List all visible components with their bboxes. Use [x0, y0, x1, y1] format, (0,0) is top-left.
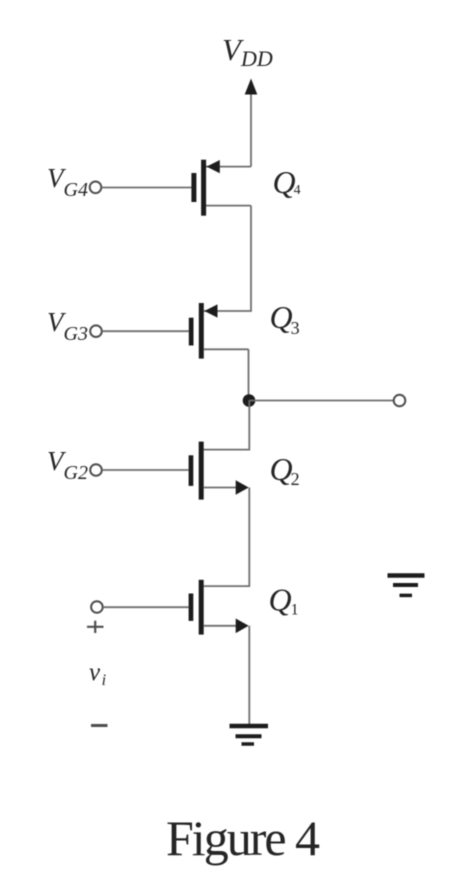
terminal VG3 — [90, 325, 102, 337]
label Q3 — [270, 299, 300, 338]
svg-text:vi: vi — [89, 659, 106, 689]
label plus — [87, 621, 104, 633]
terminal vi input — [91, 601, 103, 613]
ground (right, output reference) — [388, 576, 425, 596]
transistor Q2 (NMOS) — [189, 442, 249, 500]
transistor Q4 (PMOS) — [191, 160, 251, 216]
svg-text:Q2: Q2 — [270, 451, 300, 489]
transistor Q1 (NMOS) — [189, 580, 249, 635]
label VDD — [222, 32, 273, 71]
wire Q2 source to Q1 drain — [204, 488, 250, 587]
terminal VG2 — [90, 464, 102, 476]
svg-text:VG2: VG2 — [47, 446, 88, 484]
svg-text:Q3: Q3 — [270, 299, 300, 338]
wire Q3 drain to output node — [248, 349, 250, 400]
svg-text:VDD: VDD — [222, 32, 273, 71]
svg-text:VG4: VG4 — [47, 163, 88, 201]
label Q4 — [273, 164, 301, 200]
transistor Q3 (PMOS) — [189, 303, 249, 359]
label VG3 — [47, 307, 88, 345]
label minus — [91, 724, 108, 727]
caption Figure 4 — [166, 810, 320, 866]
ground (bottom) — [230, 726, 269, 744]
terminal output — [394, 395, 406, 407]
label Q2 — [270, 451, 300, 489]
label vi — [89, 659, 106, 689]
power VDD arrow — [245, 79, 258, 167]
wire vi to Q1 gate — [103, 606, 189, 608]
label VG2 — [47, 446, 88, 484]
node output junction — [243, 394, 256, 407]
terminal VG4 — [90, 182, 102, 194]
wire VG4 to Q4 gate — [102, 187, 192, 189]
svg-text:VG3: VG3 — [47, 307, 88, 345]
wire Q4 source to VDD — [206, 166, 251, 168]
label VG4 — [47, 163, 88, 201]
wire VG2 to Q2 gate — [102, 469, 189, 471]
wire VG3 to Q3 gate — [102, 330, 189, 332]
wire output — [249, 400, 394, 402]
svg-text:Q4: Q4 — [273, 164, 301, 200]
svg-text:Q1: Q1 — [269, 582, 299, 619]
wire output node to Q2 drain — [204, 401, 250, 450]
wire Q1 source to ground — [248, 626, 250, 724]
label Q1 — [269, 582, 299, 619]
svg-text:Figure 4: Figure 4 — [166, 810, 320, 866]
wire Q4 drain to Q3 source — [204, 206, 251, 311]
